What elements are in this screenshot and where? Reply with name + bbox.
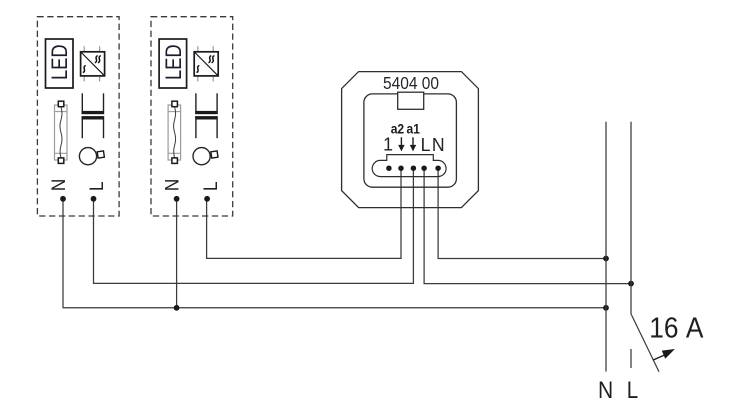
terminal dot 1 of insert	[386, 165, 392, 171]
supply line L lower stub	[630, 349, 632, 368]
terminal dot 5 of insert	[435, 165, 441, 171]
svg-text:a1: a1	[406, 121, 419, 137]
label 16 A	[649, 312, 704, 344]
fluorescent lamp symbol (box 2)	[168, 101, 181, 163]
fluorescent lamp symbol (box 1)	[55, 101, 68, 163]
terminal label L (box 1)	[86, 182, 107, 192]
wire: box1 N down and across to supply N	[63, 199, 606, 308]
junction dot supply L	[628, 281, 634, 287]
svg-text:LED: LED	[162, 44, 186, 80]
svg-text:N: N	[432, 134, 445, 155]
terminal dot 3 of insert	[411, 165, 417, 171]
wound transformer symbol (box 1)	[82, 93, 105, 138]
svg-text:16 A: 16 A	[649, 312, 704, 344]
wound transformer symbol (box 2)	[195, 93, 218, 138]
label N (device)	[432, 134, 445, 155]
load group 1 dashed box	[37, 17, 119, 216]
LED module symbol (box 1)	[46, 39, 74, 88]
supply line N	[605, 122, 607, 372]
junction dot at N bus	[174, 305, 180, 311]
wire: box2 L to insert a2	[207, 168, 401, 258]
svg-text:1: 1	[383, 134, 393, 155]
label a2	[391, 121, 404, 137]
incandescent lamp symbol (box 1)	[79, 148, 104, 165]
junction dot supply N lower	[603, 305, 609, 311]
supply line L upper	[630, 122, 632, 315]
terminal label N (box 1)	[48, 179, 69, 191]
load group 2 dashed box	[151, 17, 233, 216]
terminal dot 2 of insert	[398, 165, 404, 171]
electronic transformer symbol (box 1)	[81, 46, 105, 81]
label supply L	[627, 377, 638, 404]
svg-text:N: N	[598, 377, 613, 404]
svg-text:L: L	[86, 182, 107, 192]
wire: insert N to supply N	[438, 168, 606, 258]
claw rectangle at top	[398, 92, 424, 109]
svg-text:N: N	[162, 179, 183, 191]
terminal block (pill with cover bump)	[372, 155, 446, 177]
terminal dot 4 of insert	[421, 165, 427, 171]
breaker actuator arrow	[653, 349, 675, 360]
junction dot supply N upper	[603, 256, 609, 262]
svg-text:5404 00: 5404 00	[383, 73, 439, 93]
wire: insert L to supply L	[424, 168, 631, 283]
label supply N	[598, 377, 613, 404]
dimmer insert 5404 00 outer frame (octagon)	[342, 72, 479, 208]
incandescent lamp symbol (box 2)	[193, 148, 218, 165]
label L (device)	[421, 134, 431, 155]
wire: box2 N drop	[176, 199, 178, 308]
wire: box1 L to insert a1	[94, 168, 414, 283]
terminal label L (box 2)	[200, 182, 221, 192]
svg-text:L: L	[421, 134, 431, 155]
svg-text:L: L	[627, 377, 638, 404]
terminal N dot (box 2)	[174, 196, 180, 202]
label a1	[406, 121, 419, 137]
arrow into a1	[410, 137, 416, 151]
terminal L dot (box 2)	[204, 196, 210, 202]
label 1 (terminal)	[383, 134, 393, 155]
svg-text:N: N	[48, 179, 69, 191]
dimmer insert inner body (rounded square)	[364, 94, 457, 187]
electronic transformer symbol (box 2)	[194, 46, 218, 81]
label 5404 00	[383, 73, 439, 93]
terminal label N (box 2)	[162, 179, 183, 191]
breaker blade 16A switch	[631, 315, 659, 372]
terminal L dot (box 1)	[91, 196, 97, 202]
svg-text:L: L	[200, 182, 221, 192]
terminal N dot (box 1)	[60, 196, 66, 202]
LED module symbol (box 2)	[159, 39, 187, 88]
svg-text:LED: LED	[49, 44, 73, 80]
arrow into a2	[398, 137, 404, 151]
